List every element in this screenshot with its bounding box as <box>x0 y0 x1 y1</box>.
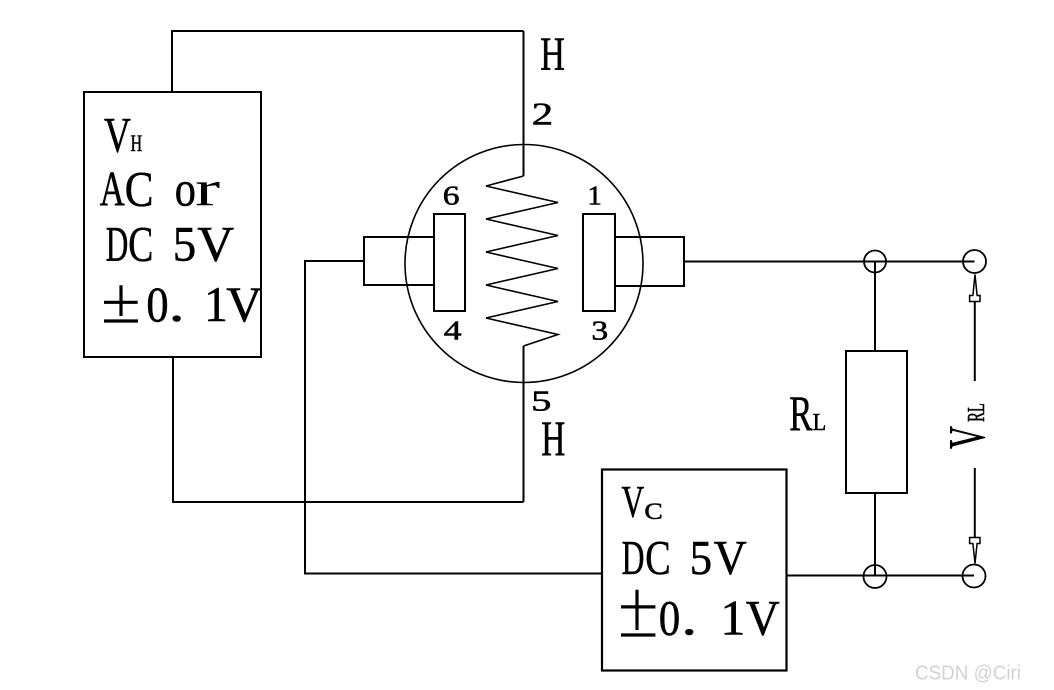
plus-minus symbol VC <box>621 590 655 635</box>
wire VC to bottom nodes <box>787 575 975 577</box>
wire RL bottom lead <box>874 493 876 577</box>
arrow up toward top node <box>970 275 980 302</box>
svg-text:L: L <box>813 408 826 435</box>
plus-minus symbol VH <box>104 285 138 321</box>
svg-text:.: . <box>169 276 185 332</box>
svg-text:H: H <box>131 131 143 157</box>
svg-text:H: H <box>541 411 565 466</box>
terminal node bottom left <box>864 565 887 588</box>
svg-text:1: 1 <box>204 277 228 332</box>
box VH heater supply <box>84 92 261 357</box>
svg-text:C: C <box>644 499 662 524</box>
arrow down toward bottom node <box>970 538 980 564</box>
svg-text:4: 4 <box>444 316 462 346</box>
wire sensing electrode right to output node <box>684 261 975 263</box>
svg-text:3: 3 <box>591 316 608 346</box>
terminal node bottom right <box>963 565 986 588</box>
wire sensing electrode left to VC <box>305 261 602 574</box>
VRL measure line upper <box>974 302 976 381</box>
svg-text:CSDN @Ciri: CSDN @Ciri <box>915 663 1021 685</box>
VRL measure line lower <box>974 468 976 537</box>
svg-text:0: 0 <box>659 591 680 647</box>
svg-text:.: . <box>681 590 697 646</box>
wire RL top lead <box>874 262 876 352</box>
svg-text:6: 6 <box>443 181 460 211</box>
svg-text:C: C <box>125 162 154 218</box>
svg-text:r: r <box>195 161 220 217</box>
terminal node top right <box>963 250 986 273</box>
svg-text:V: V <box>104 107 131 163</box>
svg-text:V: V <box>226 277 262 332</box>
wire pin 5 lead down <box>523 346 525 502</box>
svg-text:D: D <box>622 530 645 585</box>
box VC sensing supply <box>602 470 787 671</box>
svg-text:D: D <box>106 217 129 272</box>
svg-text:V: V <box>622 478 645 528</box>
heater coil zigzag pins 2-5 <box>486 176 558 346</box>
svg-text:H: H <box>540 28 565 81</box>
svg-text:C: C <box>645 532 670 586</box>
svg-text:R: R <box>789 387 812 442</box>
sensor body circle <box>405 145 643 383</box>
svg-text:A: A <box>100 162 125 217</box>
wire heater return to VH bottom <box>173 357 524 502</box>
svg-text:V: V <box>197 216 234 271</box>
resistor RL <box>846 351 907 493</box>
svg-text:5: 5 <box>173 217 196 272</box>
svg-text:1: 1 <box>720 590 745 646</box>
terminal node top left <box>864 251 886 273</box>
wire pin 2 lead <box>523 31 525 176</box>
wire VH top to node H: up and right to pin 2 <box>172 31 524 92</box>
svg-text:2: 2 <box>532 97 554 132</box>
svg-text:5: 5 <box>690 531 712 585</box>
tab right <box>615 237 684 286</box>
svg-text:1: 1 <box>587 181 602 211</box>
svg-text:0: 0 <box>146 278 168 333</box>
svg-text:V: V <box>746 591 780 646</box>
svg-text:V: V <box>714 532 747 586</box>
electrode left pins 6-4 <box>434 214 465 311</box>
electrode right pins 1-3 <box>583 214 615 311</box>
tab left <box>364 237 434 285</box>
svg-text:o: o <box>175 162 196 217</box>
svg-text:C: C <box>128 216 153 271</box>
